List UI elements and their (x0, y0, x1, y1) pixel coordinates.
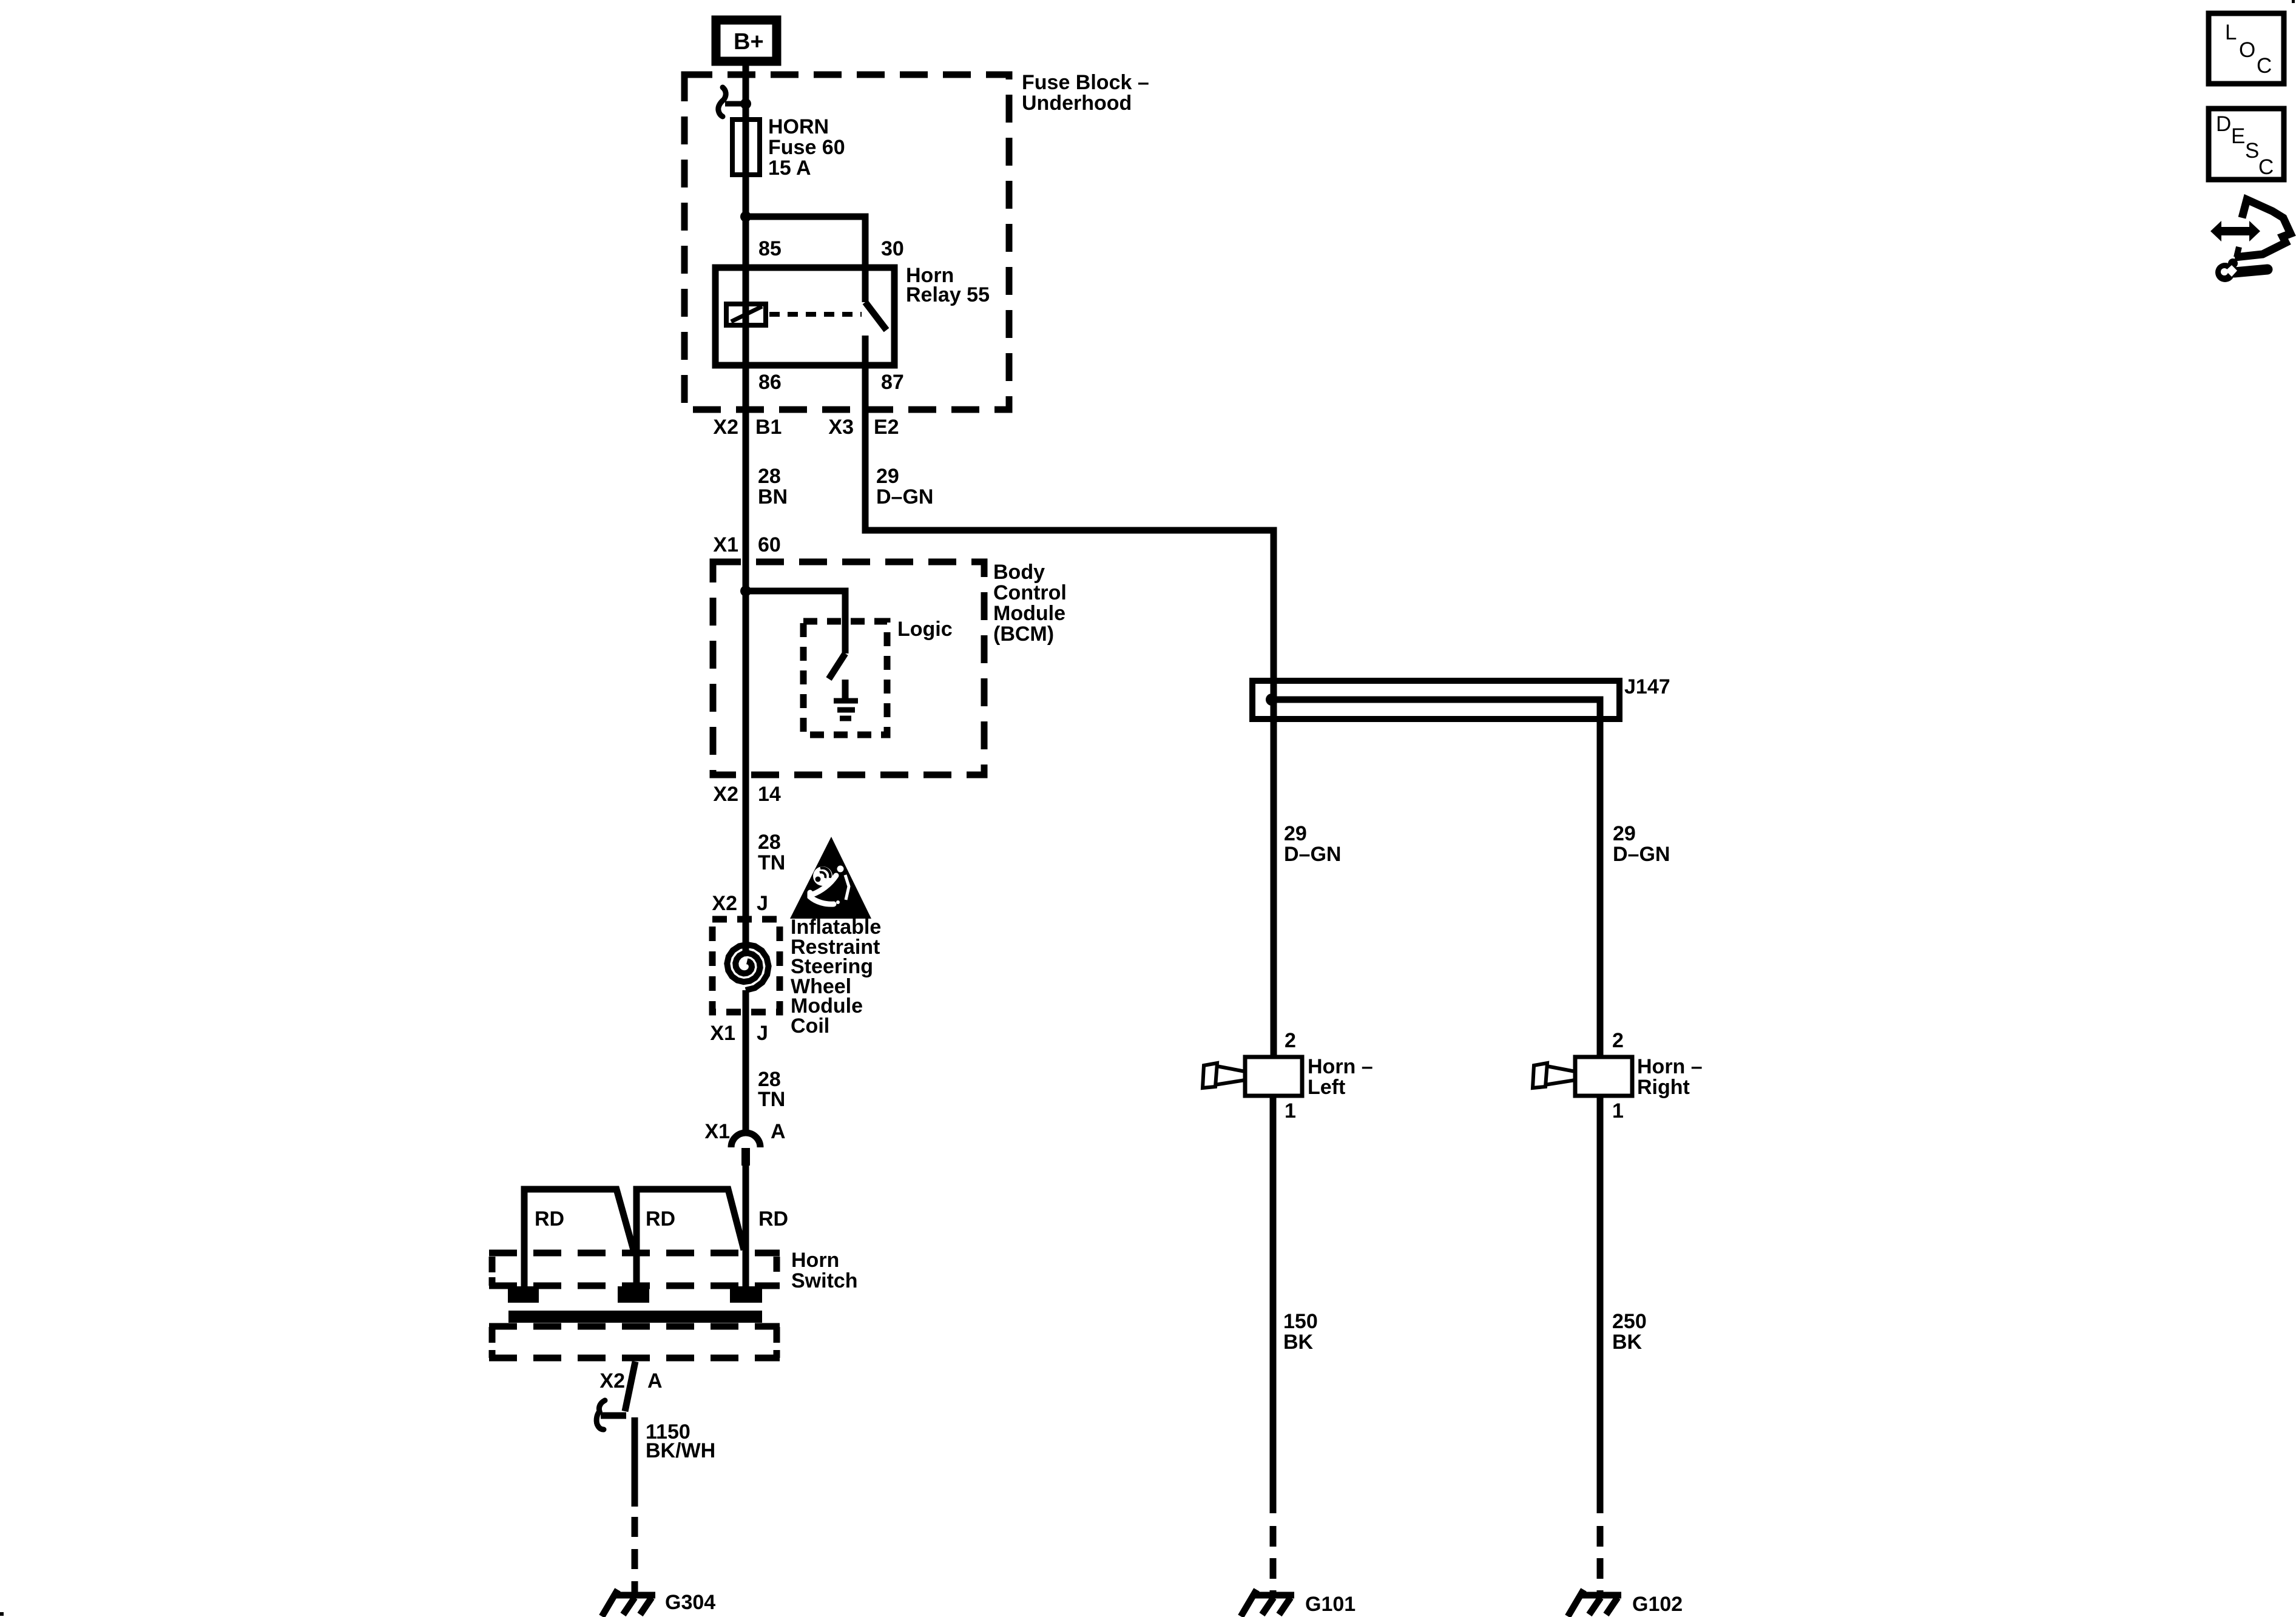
svg-text:2: 2 (1285, 1029, 1296, 1052)
svg-text:X2: X2 (713, 416, 738, 439)
svg-text:L: L (2225, 21, 2237, 44)
svg-text:RD: RD (535, 1207, 564, 1230)
svg-text:BK: BK (1283, 1331, 1314, 1354)
svg-text:29: 29 (1284, 822, 1307, 845)
svg-text:X1: X1 (704, 1120, 730, 1143)
svg-text:A: A (771, 1120, 786, 1143)
svg-text:Body: Body (993, 561, 1045, 584)
svg-text:Module: Module (993, 602, 1065, 625)
svg-text:TN: TN (758, 1088, 785, 1111)
svg-text:Relay 55: Relay 55 (906, 283, 990, 306)
svg-text:HORN: HORN (768, 115, 829, 138)
svg-text:(BCM): (BCM) (993, 623, 1054, 646)
svg-text:60: 60 (758, 533, 781, 556)
svg-text:Switch: Switch (791, 1269, 858, 1292)
svg-text:15 A: 15 A (768, 157, 811, 180)
svg-text:J: J (757, 892, 768, 915)
svg-text:C: C (2258, 155, 2274, 179)
svg-text:Horn: Horn (791, 1249, 839, 1272)
svg-text:Right: Right (1637, 1076, 1690, 1099)
svg-text:Underhood: Underhood (1022, 92, 1132, 115)
svg-text:Logic: Logic (897, 618, 953, 641)
svg-text:250: 250 (1612, 1310, 1647, 1333)
svg-text:X2: X2 (713, 783, 738, 806)
svg-text:87: 87 (881, 371, 904, 394)
svg-text:14: 14 (758, 783, 781, 806)
svg-text:Fuse Block –: Fuse Block – (1022, 71, 1149, 94)
svg-text:30: 30 (881, 237, 904, 260)
svg-text:85: 85 (758, 237, 782, 260)
svg-text:E2: E2 (874, 416, 899, 439)
svg-text:C: C (2257, 54, 2272, 78)
svg-text:Horn –: Horn – (1637, 1055, 1703, 1078)
svg-text:29: 29 (876, 465, 899, 488)
svg-text:1: 1 (1612, 1099, 1624, 1122)
svg-text:G102: G102 (1632, 1593, 1683, 1616)
svg-text:X1: X1 (713, 533, 738, 556)
svg-text:Coil: Coil (791, 1014, 829, 1038)
svg-text:D–GN: D–GN (1284, 843, 1341, 866)
svg-text:86: 86 (758, 371, 782, 394)
svg-text:Left: Left (1308, 1076, 1345, 1099)
svg-text:28: 28 (758, 831, 781, 854)
svg-text:A: A (647, 1369, 663, 1393)
svg-text:J147: J147 (1624, 675, 1670, 698)
svg-text:D: D (2216, 112, 2231, 136)
svg-text:X3: X3 (828, 416, 854, 439)
svg-text:D–GN: D–GN (1613, 843, 1670, 866)
svg-text:G101: G101 (1305, 1593, 1356, 1616)
svg-text:D–GN: D–GN (876, 485, 933, 508)
svg-text:BK/WH: BK/WH (646, 1439, 715, 1462)
svg-text:28: 28 (758, 465, 781, 488)
svg-text:X2: X2 (712, 892, 737, 915)
svg-text:S: S (2245, 139, 2259, 163)
svg-text:BK: BK (1612, 1331, 1643, 1354)
svg-text:X1: X1 (710, 1022, 735, 1045)
svg-text:Horn –: Horn – (1308, 1055, 1373, 1078)
svg-text:RD: RD (646, 1207, 675, 1230)
svg-text:Fuse 60: Fuse 60 (768, 136, 845, 159)
svg-text:BN: BN (758, 485, 788, 508)
svg-text:RD: RD (758, 1207, 788, 1230)
svg-text:X2: X2 (599, 1369, 625, 1393)
svg-text:E: E (2231, 124, 2245, 148)
svg-text:B+: B+ (734, 29, 764, 55)
svg-text:29: 29 (1613, 822, 1636, 845)
svg-text:O: O (2239, 38, 2255, 62)
svg-text:Control: Control (993, 581, 1067, 604)
svg-text:TN: TN (758, 851, 785, 874)
svg-text:J: J (757, 1022, 768, 1045)
svg-text:B1: B1 (755, 416, 782, 439)
svg-text:2: 2 (1612, 1029, 1624, 1052)
svg-text:G304: G304 (665, 1591, 715, 1614)
svg-text:1: 1 (1285, 1099, 1296, 1122)
svg-text:150: 150 (1283, 1310, 1318, 1333)
